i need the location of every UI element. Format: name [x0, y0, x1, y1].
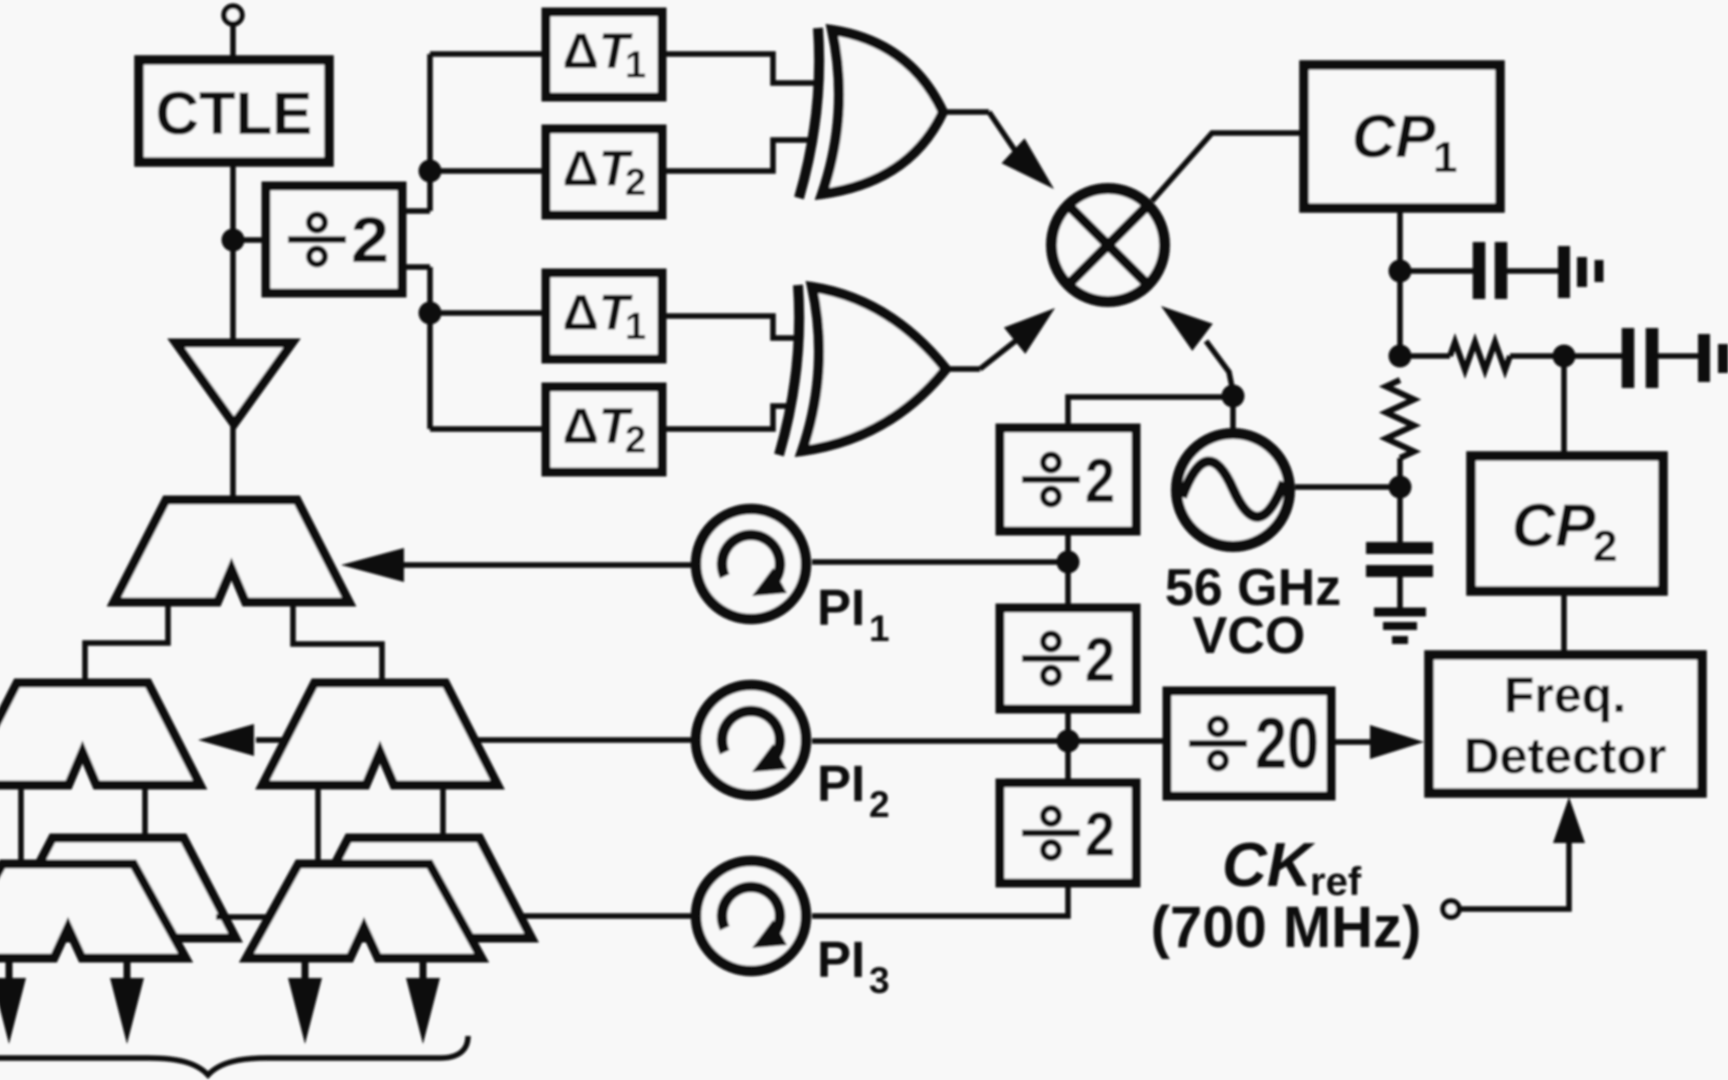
- charge pump CP2 box: [1471, 456, 1663, 591]
- wire CP1 down: [1397, 208, 1403, 362]
- svg-text:ΔT: ΔT: [563, 141, 634, 197]
- wire CTLE down to buffer: [230, 162, 236, 345]
- wire VCO top: [1230, 396, 1236, 429]
- wire div2A out lower stub: [402, 264, 430, 270]
- svg-text:2: 2: [351, 204, 389, 276]
- delay block dT1 upper: [546, 12, 662, 97]
- wire to resistor R1: [1400, 353, 1450, 359]
- wire node D down to CP2: [1561, 356, 1567, 458]
- ground G2 rotated bars: [1698, 334, 1710, 382]
- wire R1 to node D: [1510, 353, 1564, 359]
- node CP1a junction dot: [1389, 260, 1412, 283]
- wire L2R output a: [315, 782, 321, 866]
- wire L2L output a: [18, 782, 24, 866]
- delay block dT1 lower: [546, 273, 662, 359]
- wire XOR2 output: [946, 366, 980, 372]
- wire L2L output b: [142, 782, 148, 840]
- capacitor C2 plates: [1622, 328, 1635, 388]
- arrowhead into L2 left: [198, 724, 254, 756]
- wire div2D down to PI3 row: [812, 883, 1068, 916]
- node CP1b junction dot: [1389, 345, 1412, 368]
- svg-text:ΔT: ΔT: [563, 398, 634, 454]
- mixer X stroke 2: [1069, 206, 1147, 284]
- divide-by-2 A: [266, 186, 402, 293]
- mixer phase detector circle: [1052, 189, 1165, 302]
- wire dT2a to XOR1: [662, 140, 812, 171]
- wire dT1a to XOR1: [662, 54, 814, 83]
- charge pump CP1 box: [1304, 65, 1500, 208]
- phase interpolator PI1: [696, 509, 806, 619]
- node A junction dot: [222, 229, 245, 252]
- wire CP2 to freq detector: [1561, 591, 1567, 657]
- ground G3: [1374, 608, 1426, 617]
- wire PI2 to sampler tree: [474, 737, 696, 743]
- svg-text:Detector: Detector: [1464, 728, 1667, 784]
- divide-by-2 C: [1000, 608, 1136, 709]
- wire PI1 to sampler tree: [404, 562, 696, 568]
- wire div20 to freq detector: [1331, 739, 1372, 745]
- node H junction dot: [1057, 730, 1080, 753]
- wire L1 left output: [85, 602, 168, 685]
- svg-text:2: 2: [625, 162, 646, 204]
- svg-text:PI: PI: [817, 579, 865, 636]
- arrowhead PI1 into sampler: [341, 548, 404, 582]
- svg-text:1: 1: [625, 45, 646, 87]
- wire node D to capacitor C2: [1564, 353, 1623, 359]
- arrowhead XOR1 into mixer: [1002, 138, 1055, 189]
- svg-text:2: 2: [1085, 626, 1115, 695]
- svg-text:2: 2: [1085, 801, 1115, 870]
- wire L2R output b: [440, 782, 446, 840]
- wire div2B down: [1065, 531, 1071, 609]
- svg-text:2: 2: [625, 420, 646, 462]
- svg-text:CK: CK: [1222, 831, 1316, 900]
- wire node E to VCO: [1295, 484, 1400, 490]
- svg-text:CP: CP: [1512, 492, 1596, 559]
- wire to capacitor C1: [1400, 268, 1474, 274]
- wire dT1b to XOR2: [662, 316, 794, 338]
- wire bus to dT2a: [430, 168, 546, 174]
- wire bus lower vertical: [427, 267, 433, 429]
- svg-text:2: 2: [1593, 522, 1617, 571]
- svg-text:1: 1: [625, 306, 646, 348]
- divide-by-20 box: [1167, 691, 1331, 796]
- sampler L2 right: [263, 683, 498, 785]
- wire bus upper vertical: [427, 54, 433, 211]
- wire C1 to ground: [1507, 268, 1559, 274]
- XOR gate 2: [802, 287, 946, 451]
- curly brace: [0, 1036, 468, 1075]
- wire div2A out upper stub: [402, 208, 430, 214]
- output arrow 3: [302, 958, 309, 982]
- capacitor C3 plates: [1366, 542, 1433, 554]
- svg-text:CP: CP: [1352, 103, 1436, 170]
- input terminal: [224, 6, 242, 24]
- node D junction dot: [1553, 345, 1576, 368]
- sampler stack right front: [247, 864, 482, 958]
- wire bus to dT1a: [430, 51, 546, 57]
- wire C3 to ground: [1397, 577, 1403, 608]
- wire node E down to C3: [1397, 487, 1403, 542]
- wire PI3 to sampler tree: [520, 913, 696, 919]
- node F junction dot: [1222, 385, 1245, 408]
- wire div2C down: [1065, 709, 1071, 784]
- wire C2 to ground: [1658, 353, 1699, 359]
- wire between sampler stacks: [216, 914, 272, 920]
- CTLE block: [139, 60, 329, 162]
- output arrow 1: [6, 958, 13, 982]
- svg-text:1: 1: [1433, 133, 1457, 182]
- sampler stack left front: [0, 864, 186, 958]
- svg-text:ΔT: ΔT: [563, 23, 634, 79]
- svg-text:1: 1: [869, 608, 890, 649]
- wire mixer output diagonal: [1152, 133, 1304, 201]
- VCO circle: [1177, 434, 1290, 547]
- buffer triangle: [176, 343, 292, 424]
- svg-text:Freq.: Freq.: [1504, 667, 1626, 723]
- wire node F to div chain: [1068, 397, 1233, 429]
- arrowhead CKref into FD: [1553, 797, 1585, 843]
- arrowhead div20 into FD: [1370, 725, 1424, 759]
- mixer X stroke 1: [1069, 206, 1147, 284]
- resistor R1 horizontal: [1450, 342, 1510, 370]
- node G junction dot: [1057, 551, 1080, 574]
- svg-text:3: 3: [869, 960, 890, 1001]
- wire dT2b to XOR2: [662, 406, 792, 429]
- wire node F to mixer: [1206, 341, 1233, 392]
- wire terminal to CTLE: [230, 24, 236, 62]
- phase interpolator PI3: [696, 861, 806, 971]
- wire XOR1 to mixer diagonal: [989, 112, 1016, 152]
- wire XOR2 to mixer diagonal: [980, 339, 1018, 369]
- svg-text:PI: PI: [817, 755, 865, 812]
- sampler L2 left: [0, 683, 200, 785]
- svg-text:CTLE: CTLE: [156, 80, 313, 147]
- wire R2 to node E: [1397, 458, 1403, 490]
- wire buffer to sampler L1: [230, 424, 236, 502]
- svg-text:2: 2: [1085, 447, 1115, 516]
- arrowhead VCO into mixer: [1161, 306, 1213, 351]
- wire CKref: [1459, 840, 1569, 909]
- svg-text:20: 20: [1255, 704, 1319, 784]
- wire node H to div20: [1068, 738, 1167, 744]
- sampler L1: [114, 500, 349, 602]
- divide-by-2 D: [1000, 783, 1136, 883]
- delay block dT2 upper: [546, 129, 662, 215]
- node E junction dot: [1389, 476, 1412, 499]
- wire L1 right output: [293, 602, 382, 685]
- wire node A to div2A: [233, 237, 268, 243]
- node B junction dot: [419, 160, 442, 183]
- output arrow 2: [124, 958, 131, 982]
- delay block dT2 lower: [546, 387, 662, 472]
- svg-text:PI: PI: [817, 931, 865, 988]
- wire bus to dT1b: [430, 310, 546, 316]
- wire arrow L2R to L2L: [256, 737, 284, 743]
- capacitor C1 plates: [1473, 242, 1486, 299]
- output arrow 4: [420, 958, 427, 982]
- sampler stack right back: [297, 838, 532, 938]
- sampler stack left back: [1, 838, 236, 938]
- svg-text:ΔT: ΔT: [563, 285, 634, 341]
- wire PI1 row: [812, 559, 1068, 565]
- VCO sine wave: [1182, 461, 1284, 516]
- phase interpolator PI2: [696, 685, 806, 795]
- wire XOR1 output: [943, 109, 989, 115]
- svg-text:2: 2: [869, 784, 890, 825]
- XOR gate 1: [822, 30, 943, 194]
- CKref terminal: [1443, 901, 1459, 917]
- svg-text:(700 MHz): (700 MHz): [1151, 895, 1422, 960]
- svg-text:VCO: VCO: [1193, 607, 1306, 665]
- divide-by-2 B: [1000, 428, 1136, 531]
- frequency detector box: [1429, 655, 1702, 793]
- ground G1 rotated bars: [1558, 246, 1570, 298]
- resistor R2 vertical: [1386, 380, 1414, 458]
- arrowhead XOR2 into mixer: [1004, 308, 1055, 354]
- wire bus to dT2b: [430, 426, 546, 432]
- node C junction dot: [419, 302, 442, 325]
- wire PI2 row: [812, 738, 1068, 744]
